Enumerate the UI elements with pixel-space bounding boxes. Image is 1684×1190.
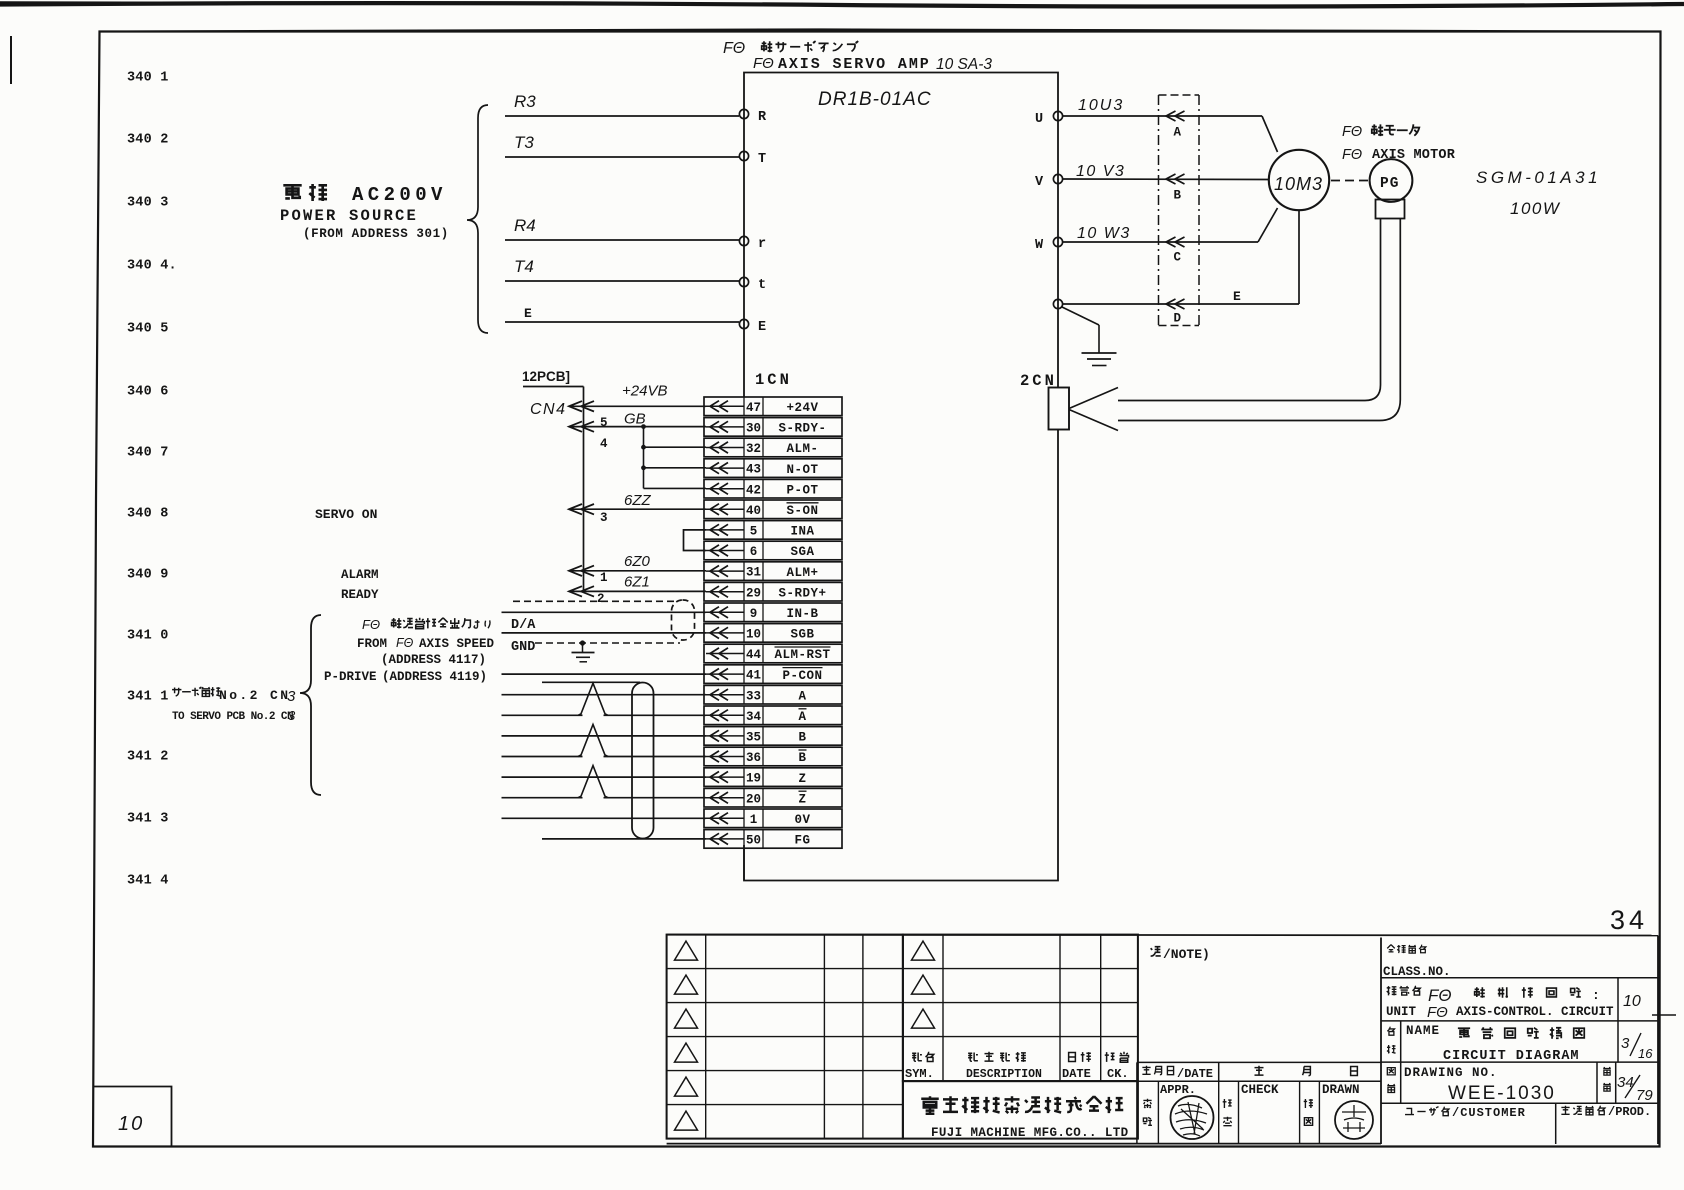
svg-text:W: W [1035, 238, 1044, 253]
connector 1CN label [755, 371, 792, 389]
svg-text:1: 1 [750, 813, 758, 827]
motor connector pin A [1174, 126, 1182, 140]
svg-text:FΘ: FΘ [362, 617, 380, 632]
wire D/A (shield dashed) [513, 600, 676, 602]
terminal R on amp [739, 109, 767, 125]
svg-text:B: B [1174, 189, 1182, 203]
svg-text:CIRCUIT DIAGRAM: CIRCUIT DIAGRAM [1443, 1049, 1580, 1064]
terminal U on amp right [1035, 111, 1063, 127]
svg-text:FG: FG [794, 834, 810, 848]
sheet number box 10 [94, 1087, 172, 1147]
svg-text:340 9: 340 9 [127, 568, 169, 583]
svg-text:Z: Z [798, 792, 806, 806]
svg-text:SGB: SGB [790, 628, 814, 642]
servo amp titles [723, 40, 992, 110]
terminal t on amp [739, 277, 766, 293]
terminal E on amp right [1053, 299, 1062, 308]
svg-text:D: D [1174, 312, 1182, 326]
svg-text:40: 40 [746, 504, 761, 518]
GB net junction to pins 32/43/42 [641, 424, 706, 488]
svg-text:INA: INA [790, 525, 814, 539]
svg-text:P-DRIVE: P-DRIVE [324, 670, 377, 684]
svg-text:5: 5 [750, 525, 758, 539]
svg-text:3: 3 [288, 708, 296, 723]
svg-text:FΘ: FΘ [753, 55, 774, 72]
svg-text:U: U [1035, 112, 1043, 127]
tick marks outside right border [1652, 1014, 1676, 1016]
svg-text:/CUSTOMER: /CUSTOMER [1452, 1106, 1526, 1120]
1CN pin 9 IN-B row [704, 603, 842, 622]
svg-text:AC200V: AC200V [352, 184, 447, 206]
wire E to servo amp [505, 306, 739, 322]
revision table right with header [903, 935, 1138, 1082]
svg-text:SERVO ON: SERVO ON [315, 507, 377, 522]
svg-text:340 1: 340 1 [127, 71, 169, 86]
svg-text:9: 9 [750, 607, 758, 621]
svg-text:340 7: 340 7 [127, 446, 169, 461]
1CN pin 30 S-RDY- row [704, 418, 842, 437]
svg-text:R3: R3 [514, 92, 536, 111]
1CN pin 40 S-ON row [704, 500, 842, 519]
svg-text:POWER SOURCE: POWER SOURCE [280, 207, 418, 225]
wire 10U3: U terminal to motor pin A [1063, 97, 1278, 152]
motor connector pin D [1174, 312, 1182, 326]
1CN pin 43 N-OT row [704, 459, 842, 478]
terminal W on amp right [1035, 237, 1063, 253]
svg-text:/PROD.: /PROD. [1608, 1105, 1651, 1119]
svg-text:CK.: CK. [1107, 1067, 1129, 1081]
svg-text:44: 44 [746, 648, 762, 662]
svg-text:DR1B-01AC: DR1B-01AC [818, 89, 932, 110]
svg-text:NAME: NAME [1406, 1024, 1440, 1038]
scan mark left edge [10, 36, 12, 84]
svg-text:T4: T4 [514, 257, 534, 276]
svg-text:B: B [798, 751, 806, 765]
company name block [903, 1081, 1138, 1140]
motor type SGM-01A31 100W [1476, 168, 1601, 218]
1CN pin 29 S-RDY+ row [704, 582, 842, 601]
svg-text:WEE-1030: WEE-1030 [1448, 1083, 1556, 1104]
label: power source AC200V [280, 184, 449, 241]
svg-text:Z: Z [798, 772, 806, 786]
svg-text:SYM.: SYM. [905, 1067, 934, 1081]
wire R4 to servo amp [505, 216, 739, 240]
motor connector pin B [1174, 189, 1182, 203]
svg-text:34: 34 [1610, 905, 1648, 935]
brace to servo PCB No.2 CN3 [300, 615, 321, 795]
svg-text:34: 34 [746, 710, 762, 724]
svg-text:341 2: 341 2 [127, 750, 169, 765]
svg-text:DRAWING NO.: DRAWING NO. [1404, 1066, 1498, 1080]
svg-text:FΘ: FΘ [1342, 124, 1362, 140]
svg-text:(ADDRESS 4117): (ADDRESS 4117) [381, 653, 486, 667]
wire to pin 10 SGB [502, 632, 707, 634]
svg-text:A: A [1174, 126, 1182, 140]
svg-text:3: 3 [1621, 1035, 1630, 1052]
svg-text:CHECK: CHECK [1241, 1083, 1279, 1097]
servo amplifier U=SA-3 outline box [744, 73, 1058, 881]
name row [1381, 1021, 1658, 1103]
svg-text:No.2 CN: No.2 CN [219, 688, 290, 703]
svg-text:T: T [758, 152, 766, 167]
svg-text:10U3: 10U3 [1078, 97, 1124, 114]
svg-text:FUJI MACHINE MFG.CO.. LTD: FUJI MACHINE MFG.CO.. LTD [931, 1126, 1129, 1140]
svg-text:S-RDY-: S-RDY- [778, 422, 826, 436]
svg-text:CLASS.NO.: CLASS.NO. [1383, 965, 1451, 979]
wire pair 33/34 with twist symbol [502, 683, 707, 715]
svg-text:SGM-01A31: SGM-01A31 [1476, 168, 1601, 187]
wire GB from CN4 to 1CN [569, 411, 706, 451]
encoder PG [1331, 159, 1412, 202]
svg-text:FΘ: FΘ [1427, 1004, 1448, 1021]
svg-text:12PCB]: 12PCB] [522, 369, 570, 384]
svg-text:41: 41 [746, 669, 761, 683]
svg-text:29: 29 [746, 586, 761, 600]
svg-text:DRAWN: DRAWN [1322, 1083, 1360, 1097]
PG cable to 2CN [1118, 219, 1400, 421]
wire +24VB from CN4 to 1CN [569, 382, 706, 430]
drawn stamp [1335, 1101, 1373, 1139]
svg-text:P-OT: P-OT [786, 483, 818, 497]
1CN pin 41 P-CON row [704, 665, 842, 684]
svg-text:D/A: D/A [511, 618, 536, 633]
svg-text:AXIS-CONTROL. CIRCUIT: AXIS-CONTROL. CIRCUIT [1456, 1005, 1614, 1019]
svg-text:FΘ: FΘ [1342, 147, 1362, 163]
approval row [667, 1081, 1381, 1143]
svg-text:10 W3: 10 W3 [1077, 225, 1131, 242]
scan edge dark strip at top [0, 3, 1684, 7]
svg-text:341 0: 341 0 [127, 629, 169, 644]
svg-text:E: E [1233, 289, 1241, 304]
wire FG to pin 50 [542, 838, 706, 840]
svg-text:341 3: 341 3 [127, 812, 169, 827]
earth ground at amp output [1062, 307, 1117, 366]
svg-text:1CN: 1CN [755, 371, 792, 389]
svg-text:340 4.: 340 4. [127, 259, 177, 274]
svg-text:S-RDY+: S-RDY+ [778, 586, 826, 600]
shield drain wire top [542, 681, 640, 683]
label: to servo PCB No.2 CN3 [172, 687, 296, 723]
svg-text:341 1: 341 1 [127, 690, 169, 705]
motor 10M3 [1269, 150, 1329, 210]
svg-text:340 6: 340 6 [127, 385, 169, 400]
terminal T on amp [739, 151, 766, 167]
svg-text:5: 5 [600, 416, 608, 430]
svg-text:340 5: 340 5 [127, 322, 169, 337]
date row [1137, 1062, 1381, 1081]
motor label F-theta axis motor [1342, 124, 1456, 163]
svg-text:DATE: DATE [1062, 1067, 1091, 1081]
svg-text:/NOTE): /NOTE) [1163, 947, 1210, 962]
svg-text:C: C [1174, 251, 1182, 265]
svg-text:33: 33 [746, 689, 761, 703]
class no box [1381, 936, 1658, 1145]
svg-text:10: 10 [1623, 993, 1641, 1010]
note: from F-theta axis speed output [362, 617, 490, 632]
svg-text:36: 36 [746, 751, 761, 765]
svg-text:10: 10 [118, 1113, 144, 1135]
svg-text:IN-B: IN-B [786, 607, 818, 621]
1CN pin 42 P-OT row [704, 479, 842, 498]
connector 2CN [1020, 372, 1118, 431]
PG cable gland box [1376, 200, 1405, 219]
svg-text:APPR.: APPR. [1160, 1083, 1196, 1097]
svg-text:10 V3: 10 V3 [1076, 163, 1125, 180]
wire GND dashed with earth ground [511, 640, 680, 662]
wire: amp left edge below 1CN table [743, 849, 745, 880]
svg-text:B: B [798, 731, 806, 745]
svg-text:A: A [798, 710, 806, 724]
connector 12PCB1 label and bracket [522, 369, 584, 592]
svg-text:SGA: SGA [790, 545, 814, 559]
unit row [1381, 978, 1658, 1021]
svg-text:6: 6 [750, 545, 758, 559]
svg-text:CN4: CN4 [530, 401, 567, 418]
1CN pin 50 FG row [704, 830, 842, 849]
wire E: motor frame to 4th terminal [1063, 211, 1299, 310]
svg-text:340 8: 340 8 [127, 507, 169, 522]
svg-text:10: 10 [746, 628, 761, 642]
svg-text:341 4: 341 4 [127, 874, 169, 889]
svg-text:0V: 0V [794, 813, 810, 827]
svg-text:20: 20 [746, 792, 761, 806]
svg-text::: : [1592, 988, 1600, 1003]
svg-text:FΘ: FΘ [1428, 986, 1452, 1005]
address row labels 3401-3414 [127, 71, 177, 889]
1CN pin 32 ALM- row [704, 438, 842, 457]
svg-text:(ADDRESS 4119): (ADDRESS 4119) [382, 670, 487, 684]
1CN pin 33 A row [704, 685, 842, 704]
svg-text:ALM+: ALM+ [786, 566, 818, 580]
svg-text:2: 2 [597, 592, 605, 606]
svg-text:79: 79 [1636, 1087, 1653, 1104]
svg-text:R: R [758, 110, 767, 125]
svg-text:AXIS SERVO AMP: AXIS SERVO AMP [778, 56, 931, 73]
svg-text:31: 31 [746, 566, 761, 580]
svg-text:6ZZ: 6ZZ [624, 492, 652, 509]
wire pair 35/36 with twist symbol [502, 724, 707, 756]
1CN pin 20 Z row [704, 788, 842, 807]
svg-text:+24VB: +24VB [622, 382, 667, 399]
svg-text:43: 43 [746, 463, 761, 477]
svg-text:32: 32 [746, 442, 761, 456]
1CN pin 47 +24V row [704, 397, 842, 416]
svg-text:FΘ: FΘ [723, 40, 745, 57]
1CN pin 10 SGB row [704, 624, 842, 643]
connector CN4 label [530, 401, 567, 418]
svg-text:FROM: FROM [357, 637, 387, 651]
wire pair 19/20 with twist symbol [502, 766, 707, 798]
svg-text:10 SA-3: 10 SA-3 [936, 56, 992, 73]
wire 6Z0 from CN4 to 1CN [569, 553, 706, 585]
svg-text:t: t [758, 278, 766, 293]
svg-text:42: 42 [746, 483, 761, 497]
svg-text:30: 30 [746, 422, 761, 436]
1CN pin 5 INA row [704, 521, 842, 540]
wire R3 to servo amp [505, 92, 739, 116]
svg-text:T3: T3 [514, 133, 534, 152]
revision table left [667, 935, 903, 1139]
drawing no row [1381, 1062, 1658, 1104]
svg-text:N-OT: N-OT [786, 463, 818, 477]
1CN pin 36 B row [704, 747, 842, 766]
svg-text:r: r [758, 237, 766, 252]
svg-text:E: E [524, 306, 532, 321]
svg-text:ALARM: ALARM [341, 568, 379, 582]
wire 10V3: V terminal to motor [1063, 163, 1269, 184]
wire T3 to servo amp [505, 133, 739, 157]
1CN pin 35 B row [704, 727, 842, 746]
svg-text:+24V: +24V [786, 401, 818, 415]
shield oval around D/A pair [672, 600, 695, 640]
terminal V on amp right [1035, 174, 1063, 190]
jumper INA-SGA (pins 5-6) [684, 530, 707, 551]
svg-text:35: 35 [746, 731, 761, 745]
svg-text:ALM-RST: ALM-RST [774, 648, 830, 662]
svg-text:10M3: 10M3 [1274, 174, 1323, 194]
1CN pin 31 ALM+ row [704, 562, 842, 581]
svg-text:47: 47 [746, 401, 761, 415]
svg-text:(FROM ADDRESS 301): (FROM ADDRESS 301) [303, 227, 449, 241]
wire P-DRIVE to pin 41 [502, 673, 707, 675]
approval stamp [1171, 1096, 1214, 1139]
svg-text:UNIT: UNIT [1386, 1005, 1417, 1019]
brace grouping power feeder wires [467, 105, 488, 333]
wire D/A to pin 9 IN-B [502, 612, 707, 633]
terminal r on amp [739, 236, 766, 252]
wire T4 to servo amp [505, 257, 739, 281]
note box [667, 935, 1658, 962]
terminal E on amp [739, 319, 766, 335]
encoder cable shield oval [632, 683, 654, 839]
1CN pin 19 Z row [704, 768, 842, 787]
svg-text:GND: GND [511, 640, 535, 655]
svg-text:PG: PG [1380, 176, 1399, 192]
svg-text:S-ON: S-ON [786, 504, 818, 518]
svg-text:DESCRIPTION: DESCRIPTION [966, 1068, 1042, 1081]
svg-text:R4: R4 [514, 216, 536, 235]
svg-text:3: 3 [600, 511, 608, 525]
svg-text:340 2: 340 2 [127, 133, 169, 148]
svg-text:ALM-: ALM- [786, 442, 818, 456]
svg-text:READY: READY [341, 588, 379, 602]
svg-text:6Z1: 6Z1 [624, 573, 650, 590]
svg-text:340 3: 340 3 [127, 196, 169, 211]
1CN pin 34 A row [704, 706, 842, 725]
svg-text:E: E [758, 320, 766, 335]
svg-text:FΘ: FΘ [396, 636, 414, 650]
svg-text:AXIS SPEED: AXIS SPEED [419, 637, 495, 651]
svg-text:19: 19 [746, 772, 761, 786]
svg-text:/DATE: /DATE [1177, 1067, 1213, 1081]
customer row [1405, 1103, 1651, 1144]
svg-text:A: A [798, 689, 806, 703]
page number 34 [1610, 905, 1648, 935]
svg-text:100W: 100W [1510, 199, 1561, 218]
svg-text:3: 3 [287, 688, 296, 705]
svg-text:50: 50 [746, 834, 761, 848]
labels servo on / alarm / ready [315, 507, 379, 602]
svg-text:P-CON: P-CON [782, 669, 822, 683]
motor connector pin C [1174, 251, 1182, 265]
svg-text:1: 1 [600, 571, 608, 585]
svg-text:V: V [1035, 175, 1044, 190]
svg-text:6Z0: 6Z0 [624, 553, 651, 570]
wire 6ZZ from CN4 to 1CN [569, 492, 706, 525]
wire 0V to pin 1 [502, 817, 707, 819]
1CN pin 1 0V row [704, 809, 842, 828]
svg-text:16: 16 [1638, 1046, 1653, 1061]
motor connector box (dash-dot) [1159, 95, 1200, 326]
wire 6Z1 from CN4 to 1CN [569, 573, 706, 606]
1CN pin 44 ALM-RST row [704, 644, 842, 663]
1CN pin 6 SGA row [704, 541, 842, 560]
svg-text:TO SERVO PCB No.2 CN: TO SERVO PCB No.2 CN [172, 711, 293, 723]
svg-text:4: 4 [600, 437, 608, 451]
wire 10W3: W terminal to motor pin C [1063, 208, 1278, 247]
